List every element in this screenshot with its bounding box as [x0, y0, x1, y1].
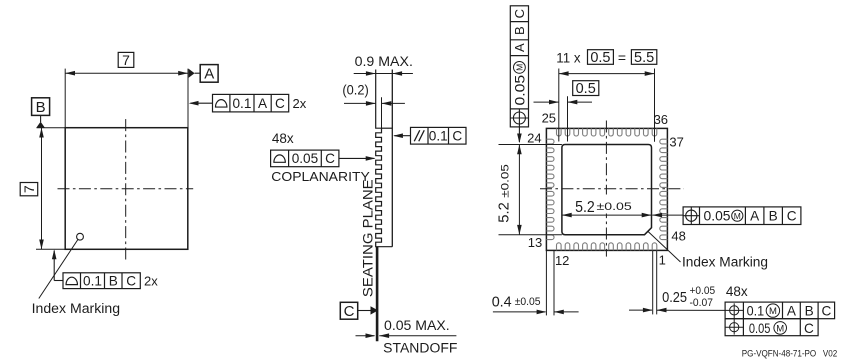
- fcf profile 0.1 B C frame: [63, 273, 140, 289]
- svg-text:C: C: [512, 9, 527, 18]
- side view body top inner edge: [382, 127, 393, 129]
- svg-text:1: 1: [659, 253, 666, 268]
- index marking leader diagonal: [648, 232, 680, 262]
- seating plane label (rotated): [360, 179, 375, 297]
- coplanarity label: [271, 169, 370, 184]
- extension line through lead 36: [654, 69, 656, 142]
- lead length dimension 0.4: [493, 310, 579, 315]
- svg-text:0.5: 0.5: [590, 50, 610, 66]
- pin label 25: [542, 110, 556, 125]
- fcf vertical leader arrow: [517, 127, 522, 143]
- pad extension line bottom left: [499, 234, 562, 236]
- right side leads pins 37-48: [660, 139, 668, 239]
- datum B triangle and leader: [36, 115, 45, 127]
- svg-text:7: 7: [122, 52, 130, 68]
- fcf position 0.1 M A B C frame: [725, 302, 835, 319]
- datum C box: [340, 302, 357, 320]
- lead width extension lines: [653, 250, 657, 314]
- extension line right edge up: [187, 69, 189, 128]
- svg-text:0.1: 0.1: [232, 96, 251, 111]
- svg-text:0.05: 0.05: [292, 151, 318, 166]
- svg-text:±0.05: ±0.05: [597, 201, 632, 213]
- standoff dimension arrows: [356, 333, 457, 338]
- svg-text:B: B: [805, 303, 814, 318]
- fcf profile 0.1 A C leader arrow: [189, 101, 213, 106]
- svg-text:5.2: 5.2: [496, 202, 513, 223]
- svg-text:37: 37: [669, 135, 683, 150]
- svg-text:C: C: [452, 128, 462, 143]
- svg-text:0.1: 0.1: [83, 273, 102, 288]
- svg-text:11 x: 11 x: [556, 50, 580, 66]
- fcf parallelism leader arrow: [393, 133, 410, 138]
- pin label 24: [527, 131, 541, 146]
- dimension 7 horizontal boxed value: [118, 52, 134, 68]
- pin label 13: [528, 235, 542, 250]
- svg-text:13: 13: [528, 235, 542, 250]
- extension line bottom edge left: [36, 248, 65, 250]
- equals sign: [618, 50, 626, 66]
- svg-text:48x: 48x: [272, 131, 294, 146]
- svg-text:2x: 2x: [293, 96, 307, 111]
- bottom view horizontal centerline: [540, 188, 684, 190]
- lead length value 0.4 +-0.05: [492, 293, 541, 310]
- standoff label: [383, 340, 457, 355]
- svg-text:0.9 MAX.: 0.9 MAX.: [355, 54, 413, 69]
- pin label 37: [669, 135, 683, 150]
- index marking label: [32, 301, 121, 316]
- fcf position 0.05 M A B C vertical frame: [510, 6, 528, 127]
- top view vertical centerline: [125, 119, 127, 260]
- fcf position right leader: [652, 213, 683, 218]
- datum A box: [200, 65, 218, 83]
- svg-text:±0.05: ±0.05: [515, 296, 541, 308]
- side view leads sawtooth profile and body outline: [376, 70, 393, 247]
- svg-text:+0.05: +0.05: [690, 285, 716, 297]
- index marking label right: [682, 254, 768, 269]
- index marking circle (top view): [77, 233, 84, 240]
- svg-text:A: A: [750, 208, 760, 223]
- svg-text:0.4: 0.4: [492, 293, 512, 310]
- svg-text:M: M: [514, 64, 524, 71]
- svg-text:B: B: [36, 99, 46, 116]
- fcf profile 0.1 B C leader with arrow: [52, 250, 63, 281]
- side view body right edge: [391, 70, 393, 247]
- label 11 x: [556, 50, 580, 66]
- bottom view vertical centerline: [605, 121, 607, 257]
- boxed 5.5 value: [631, 50, 656, 66]
- fcf parallelism 0.1 C frame: [411, 127, 467, 144]
- boxed 0.5 pitch value: [573, 81, 599, 97]
- svg-text:STANDOFF: STANDOFF: [383, 340, 457, 355]
- index marking leader line: [39, 240, 78, 299]
- fcf 2x count label bottom: [144, 274, 158, 289]
- svg-text:B: B: [769, 208, 778, 223]
- datum C triangle leader: [358, 306, 378, 314]
- side view 0.9 MAX label: [355, 54, 413, 69]
- svg-text:(0.2): (0.2): [342, 82, 368, 97]
- dimension 7 vertical boxed value (rotated): [20, 183, 38, 196]
- pin label 36: [654, 112, 668, 127]
- svg-text:B: B: [512, 26, 527, 35]
- svg-text:C: C: [821, 303, 831, 318]
- pin label 1: [659, 253, 666, 268]
- svg-text:0.1: 0.1: [429, 128, 448, 143]
- extension line through lead 26: [567, 96, 569, 141]
- svg-text:A: A: [204, 66, 214, 83]
- svg-text:2x: 2x: [144, 274, 158, 289]
- svg-text:COPLANARITY: COPLANARITY: [271, 169, 370, 184]
- standoff 0.05 MAX label: [384, 318, 450, 333]
- svg-text:C: C: [787, 208, 797, 223]
- bottom view package outline: [546, 128, 667, 250]
- pin label 12: [555, 253, 569, 268]
- svg-text:C: C: [344, 303, 355, 320]
- pad extension line top left: [499, 144, 562, 146]
- svg-text:0.05: 0.05: [704, 208, 731, 223]
- svg-text:0.05: 0.05: [512, 75, 527, 106]
- side view (0.2) label: [342, 82, 368, 97]
- svg-text:24: 24: [527, 131, 541, 146]
- svg-text:48: 48: [671, 229, 685, 244]
- top view package body outline (7x7 square): [65, 128, 188, 250]
- pad height value 5.2 +-0.05 (rotated): [496, 164, 513, 223]
- svg-text:0.1: 0.1: [747, 303, 765, 318]
- document number label: [742, 348, 838, 358]
- svg-text:M: M: [734, 211, 741, 221]
- svg-text:Index Marking: Index Marking: [682, 254, 768, 269]
- bottom side leads pins 12-1: [557, 243, 657, 251]
- fcf position 0.05 M C frame: [725, 319, 818, 336]
- lead pitch total dimension 11 x 0.5 = 5.5: [559, 71, 655, 76]
- extension line through lead 25: [558, 69, 560, 142]
- svg-text:36: 36: [654, 112, 668, 127]
- datum A triangle: [189, 69, 201, 78]
- side view inner lead line: [381, 97, 383, 128]
- svg-text:A: A: [258, 96, 268, 111]
- 48x count label right: [726, 284, 748, 299]
- extension line top edge left: [37, 127, 66, 129]
- svg-text:PG-VQFN-48-71-PO V02: PG-VQFN-48-71-PO V02: [742, 348, 838, 358]
- top view horizontal centerline: [58, 188, 194, 190]
- side view 0.2 dimension line: [344, 101, 405, 106]
- svg-text:A: A: [787, 303, 797, 318]
- side view 0.9 dimension line: [354, 71, 413, 76]
- datum B box: [32, 98, 50, 116]
- svg-text:M: M: [776, 323, 784, 334]
- side view 48x count label: [272, 131, 294, 146]
- svg-text:B: B: [109, 273, 118, 288]
- pad width dimension 5.2 line: [562, 213, 652, 218]
- fcf position 0.05 M A B C frame right: [683, 207, 801, 225]
- svg-text:0.05 MAX.: 0.05 MAX.: [384, 318, 450, 333]
- fcf profile 0.1 A C frame: [213, 94, 289, 112]
- svg-text:5.2: 5.2: [575, 199, 595, 216]
- svg-text:5.5: 5.5: [634, 50, 654, 66]
- svg-text:12: 12: [555, 253, 569, 268]
- fcf coplanarity profile 0.05 C frame: [271, 150, 339, 167]
- boxed 0.5 value: [588, 50, 614, 66]
- lead width value 0.25 +0.05 -0.07: [662, 285, 715, 309]
- svg-text:A: A: [512, 43, 527, 52]
- svg-text:0.25: 0.25: [662, 289, 687, 306]
- pad width value 5.2 +-0.05: [573, 195, 634, 217]
- svg-text:-0.07: -0.07: [690, 297, 714, 309]
- seating plane line: [376, 247, 379, 342]
- svg-text:25: 25: [542, 110, 556, 125]
- svg-text:C: C: [126, 273, 136, 288]
- fcf coplanarity leader arrow: [339, 156, 376, 161]
- svg-text:=: =: [618, 50, 626, 66]
- dimension 7 horizontal: line+arrows: [65, 71, 188, 76]
- svg-text:7: 7: [21, 185, 37, 193]
- pad height dimension 5.2: [517, 145, 522, 235]
- svg-text:±0.05: ±0.05: [500, 164, 512, 198]
- svg-text:C: C: [325, 151, 335, 166]
- fcf 2x count label: [293, 96, 307, 111]
- svg-text:0.05: 0.05: [749, 321, 771, 336]
- extension line left edge up: [64, 69, 66, 128]
- lead length extension lines: [546, 250, 554, 315]
- svg-text:C: C: [804, 321, 814, 336]
- svg-text:M: M: [769, 306, 777, 317]
- left side leads pins 24-13: [546, 139, 554, 239]
- svg-text:48x: 48x: [726, 284, 748, 299]
- lead pitch 0.5 dimension: [534, 100, 593, 105]
- fcf stack leader: [657, 309, 725, 311]
- top side leads pins 25-36: [557, 128, 657, 136]
- exposed pad outline with index chamfer: [562, 145, 652, 235]
- svg-text:0.5: 0.5: [576, 81, 596, 97]
- svg-text:SEATING PLANE: SEATING PLANE: [360, 179, 375, 297]
- pin label 48: [671, 229, 685, 244]
- svg-text:C: C: [275, 96, 285, 111]
- svg-text:Index Marking: Index Marking: [32, 301, 121, 316]
- dimension 7 vertical: line+arrows: [39, 128, 44, 250]
- lead width dimension 0.25: [629, 308, 667, 313]
